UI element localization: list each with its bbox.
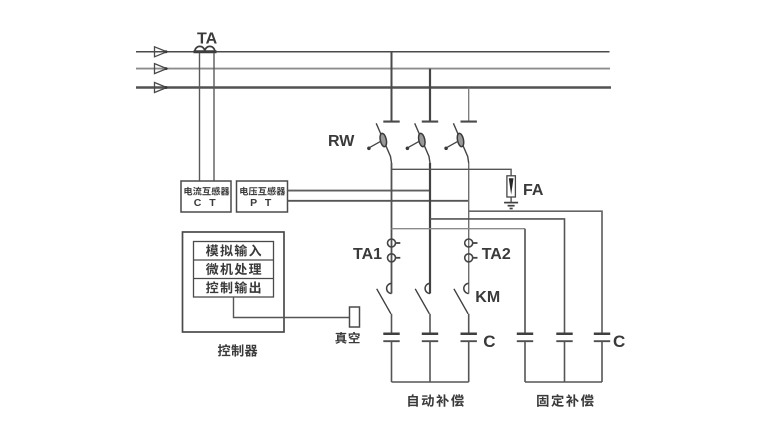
wire auto bank bottom bus bbox=[392, 381, 469, 383]
label computer processing bbox=[206, 263, 261, 275]
vacuum contactor coil bbox=[350, 307, 360, 327]
wire PT output 1 bbox=[288, 190, 431, 192]
wire phase 2 drop from bus bbox=[429, 69, 431, 122]
fuse cutout RW phase 2 bbox=[406, 122, 439, 163]
ground under FA bbox=[504, 203, 518, 209]
block CT (current transformer unit) bbox=[181, 181, 231, 212]
current transformer TA2 bbox=[465, 239, 478, 262]
capacitor C fixed bank 2 bbox=[556, 334, 572, 382]
contactor KM pole 1 bbox=[377, 283, 392, 333]
svg-text:C T: C T bbox=[194, 197, 218, 209]
current transformer TA1 bbox=[388, 239, 401, 262]
svg-text:C: C bbox=[613, 332, 625, 351]
label controller bbox=[218, 344, 258, 356]
wire controller output bbox=[234, 297, 350, 318]
wire phase 1 vertical bbox=[391, 163, 393, 294]
wire phase 1 drop from bus bbox=[391, 52, 393, 122]
wire bus L1 bbox=[136, 51, 610, 53]
wire fixed bank bottom bus bbox=[525, 381, 602, 383]
label CT box chinese bbox=[184, 187, 229, 196]
fuse cutout RW phase 3 bbox=[444, 122, 477, 163]
surge arrester FA bbox=[507, 176, 516, 203]
source arrow phase 1 bbox=[155, 47, 168, 57]
wire bus L2 bbox=[136, 68, 610, 70]
wire phase 2 vertical bbox=[429, 163, 431, 294]
capacitor C fixed bank 3 bbox=[594, 334, 610, 382]
wire phase 1 to fixed cap 1 bbox=[392, 228, 526, 230]
label vacuum bbox=[335, 332, 359, 344]
source arrow phase 2 bbox=[155, 64, 168, 74]
svg-text:C: C bbox=[483, 332, 495, 351]
svg-text:TA2: TA2 bbox=[482, 246, 511, 263]
label analog input bbox=[206, 244, 261, 256]
wire TA secondary right bbox=[213, 53, 215, 181]
source arrow phase 3 bbox=[155, 83, 168, 93]
svg-text:TA1: TA1 bbox=[353, 246, 382, 263]
block controller outer bbox=[183, 232, 285, 332]
wire PT output 2 bbox=[288, 200, 469, 202]
block controller inner stack bbox=[194, 242, 274, 298]
label control output bbox=[206, 281, 260, 293]
wire phase 3 drop from bus bbox=[468, 88, 470, 122]
svg-text:KM: KM bbox=[475, 289, 500, 306]
label PT box chinese bbox=[240, 187, 285, 196]
svg-text:FA: FA bbox=[523, 182, 544, 199]
fuse cutout RW phase 1 bbox=[367, 122, 400, 163]
wire phase 2 to fixed cap 2 bbox=[430, 219, 565, 333]
wire phase 3 vertical bbox=[468, 163, 470, 294]
capacitor C auto bank 3 bbox=[461, 334, 477, 382]
capacitor C auto bank 1 bbox=[383, 334, 399, 382]
contactor KM pole 2 bbox=[415, 283, 430, 333]
wire phase 3 to fixed cap 3 bbox=[469, 211, 602, 333]
current transformer TA (bus CT) bbox=[194, 46, 217, 51]
label automatic compensation bbox=[408, 394, 464, 407]
svg-text:P T: P T bbox=[250, 197, 274, 209]
wire TA secondary left bbox=[199, 53, 201, 181]
capacitor C fixed bank 1 bbox=[517, 334, 533, 382]
svg-text:TA: TA bbox=[197, 31, 218, 48]
wire bus L3 bbox=[136, 86, 611, 88]
capacitor C auto bank 2 bbox=[422, 334, 438, 382]
wire to arrester FA bbox=[392, 169, 512, 176]
svg-text:RW: RW bbox=[328, 133, 355, 150]
label fixed compensation bbox=[537, 394, 593, 407]
contactor KM pole 3 bbox=[454, 283, 469, 333]
block PT (voltage transformer unit) bbox=[237, 181, 288, 212]
